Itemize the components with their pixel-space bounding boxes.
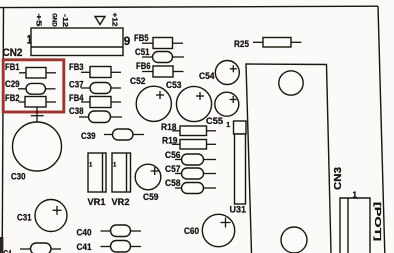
capacitor C41 xyxy=(77,241,142,253)
svg-text:1: 1 xyxy=(353,191,358,200)
svg-text:CN2: CN2 xyxy=(3,47,23,59)
capacitor C30 polarity mark xyxy=(31,108,44,123)
svg-text:C31: C31 xyxy=(17,213,32,224)
svg-text:C60: C60 xyxy=(184,226,199,237)
capacitor C37 xyxy=(69,80,121,94)
capacitor C38 xyxy=(69,106,122,122)
board top border xyxy=(0,6,378,7)
ferrite bead FB4 xyxy=(69,93,121,108)
svg-text:R25: R25 xyxy=(234,39,250,50)
svg-text:+5: +5 xyxy=(34,14,41,27)
ferrite bead FB1 xyxy=(5,62,56,78)
red highlight box xyxy=(3,60,64,112)
svg-text:FB2: FB2 xyxy=(5,93,20,104)
regulator VR1 xyxy=(88,153,107,208)
svg-text:FB3: FB3 xyxy=(69,62,84,73)
capacitor C40 xyxy=(77,225,142,239)
svg-text:+12: +12 xyxy=(110,13,117,27)
capacitor C30 xyxy=(11,122,62,183)
svg-text:9: 9 xyxy=(124,34,131,48)
svg-text:-12: -12 xyxy=(61,14,68,27)
connector CN3 xyxy=(340,191,370,253)
capacitor C52 xyxy=(130,76,171,121)
capacitor C59 xyxy=(135,164,161,203)
ferrite bead FB5 xyxy=(134,33,183,48)
svg-text:VR1: VR1 xyxy=(88,197,107,208)
ground symbol xyxy=(95,17,105,25)
capacitor C42 partial at bottom edge xyxy=(4,243,62,253)
capacitor C31 xyxy=(17,200,67,232)
svg-text:U31: U31 xyxy=(230,205,247,216)
capacitor C57 xyxy=(165,164,216,179)
capacitor C54 xyxy=(199,61,239,85)
svg-text:C54: C54 xyxy=(199,71,215,82)
regulator VR2 xyxy=(112,153,131,208)
svg-text:FB6: FB6 xyxy=(136,61,151,72)
svg-text:C52: C52 xyxy=(130,76,146,87)
svg-text:VR2: VR2 xyxy=(112,197,130,208)
board left edge bottom blob xyxy=(0,237,3,253)
capacitor C51 xyxy=(135,47,184,62)
capacitor C53 xyxy=(166,80,212,122)
svg-text:FB1: FB1 xyxy=(5,62,20,73)
ferrite bead FB3 xyxy=(69,62,121,77)
svg-text:1: 1 xyxy=(27,33,32,47)
connector CN2 xyxy=(3,28,124,59)
svg-text:C37: C37 xyxy=(69,80,84,91)
board right border xyxy=(378,6,385,253)
capacitor C55 xyxy=(206,92,239,127)
capacitor C29 xyxy=(5,79,56,94)
capacitor C60 xyxy=(184,214,235,246)
svg-text:C59: C59 xyxy=(143,192,159,203)
capacitor C56 xyxy=(165,150,216,165)
svg-text:C55: C55 xyxy=(206,116,224,127)
power module outline xyxy=(246,64,331,253)
svg-text:1: 1 xyxy=(226,122,230,129)
svg-text:C29: C29 xyxy=(5,79,20,90)
mounting hole top xyxy=(279,71,303,95)
IC U31 xyxy=(226,121,246,216)
resistor R19 xyxy=(162,136,216,150)
board left border xyxy=(2,7,3,253)
ferrite bead FB2 xyxy=(5,93,56,107)
capacitor C58 xyxy=(165,178,216,193)
svg-text:GND: GND xyxy=(51,13,58,27)
mounting hole bottom xyxy=(281,227,307,253)
resistor R18 xyxy=(161,122,216,136)
svg-text:C39: C39 xyxy=(81,131,96,142)
svg-text:C40: C40 xyxy=(77,228,92,239)
capacitor C39 xyxy=(81,129,144,142)
svg-text:CN3: CN3 xyxy=(333,167,344,190)
svg-text:C4: C4 xyxy=(4,249,12,253)
ferrite bead FB6 xyxy=(136,61,184,77)
svg-text:[POT]: [POT] xyxy=(373,202,382,241)
svg-text:C41: C41 xyxy=(77,242,93,253)
svg-text:C53: C53 xyxy=(166,80,182,91)
resistor R25 xyxy=(234,38,302,51)
svg-text:C30: C30 xyxy=(11,172,26,183)
svg-text:C38: C38 xyxy=(69,106,84,117)
